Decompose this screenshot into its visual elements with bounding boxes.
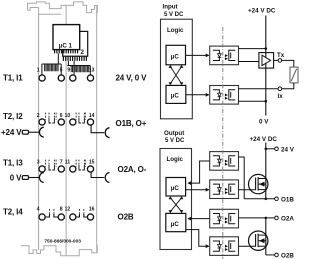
svg-text:+24 V DC: +24 V DC (250, 136, 278, 143)
terminal Tx (278, 59, 282, 63)
O1B output line (244, 198, 275, 200)
contact 9 (70, 75, 76, 81)
wire box2 pins to comb2 (67, 61, 69, 66)
wire load resistor to Ix (282, 83, 294, 89)
wire Ix to optocoupler 2 (239, 88, 279, 90)
microcontroller box uC 1 (53, 25, 80, 50)
svg-text:5 V DC: 5 V DC (164, 12, 184, 18)
svg-text:O2A, O-: O2A, O- (118, 165, 147, 174)
gate wire optoB to Q1 (239, 189, 256, 191)
wire Tx to load resistor (282, 60, 294, 67)
svg-text:O2B: O2B (118, 212, 134, 221)
svg-text:Tx: Tx (277, 52, 285, 59)
terminal 24V (275, 147, 279, 151)
dashed slot contact 15 (84, 160, 86, 167)
dashed slot contact 6 (55, 113, 57, 120)
svg-text:12: 12 (65, 207, 71, 213)
svg-text:24 V, 0 V: 24 V, 0 V (116, 73, 148, 82)
svg-text:13: 13 (89, 68, 95, 74)
wire uC2 to optocoupler 2 (186, 94, 209, 96)
contact 1 (39, 75, 45, 81)
feedback rail optoA down to O1B line (239, 157, 245, 199)
galvanic isolation dash-dot barrier (222, 27, 224, 259)
svg-text:+24 V DC: +24 V DC (248, 7, 276, 14)
wire optocoupler1 to +24V rail (239, 48, 266, 50)
svg-text:7: 7 (60, 159, 63, 165)
svg-text:8: 8 (60, 207, 63, 213)
crossed arrows between output uC boxes (170, 198, 181, 212)
Q2 drain-source rail (265, 218, 267, 255)
uC box U2 input (166, 85, 186, 103)
terminal O2A (275, 216, 279, 220)
contact 12 (70, 214, 76, 220)
svg-text:24 V: 24 V (281, 146, 295, 153)
svg-text:15: 15 (89, 159, 95, 165)
jumper dashes (78, 160, 80, 165)
contact 13 (87, 75, 93, 81)
svg-text:Input: Input (163, 3, 178, 10)
comb bus contacts 1-5 (42, 63, 61, 65)
load resistor external (290, 67, 298, 83)
wire optocoupler2 to 0V rail (239, 100, 266, 102)
amplifier U3 (259, 53, 274, 69)
svg-text:0 V: 0 V (10, 173, 22, 182)
svg-text:14: 14 (89, 113, 95, 119)
svg-text:6: 6 (60, 113, 63, 119)
uC1 pin row (55, 50, 78, 54)
transistor Q1 (O1B) (249, 174, 268, 193)
junction 0V/opto2 (265, 100, 268, 103)
junction O2A/Q2 drain (265, 217, 268, 220)
jumper dashes (83, 160, 85, 165)
uC box U1 input (166, 45, 186, 65)
svg-text:+24 V: +24 V (1, 128, 22, 137)
jumper dashes (48, 160, 50, 165)
jumper dashes (53, 160, 55, 165)
crossed arrows between input uC boxes (170, 67, 181, 84)
comb bus contacts 9-13 (67, 65, 90, 67)
terminal O1B (275, 197, 279, 201)
svg-text:2: 2 (37, 113, 40, 119)
contact 15 (87, 166, 93, 172)
svg-text:T2, I4: T2, I4 (3, 208, 23, 217)
jumper dashes (48, 113, 50, 118)
svg-text:T1, I1: T1, I1 (3, 74, 23, 83)
jumper dashes (78, 113, 80, 118)
svg-text:9: 9 (67, 68, 70, 74)
wire amplifier to Tx (274, 59, 279, 61)
svg-text:11: 11 (65, 159, 71, 165)
jumper bridge contacts 4-8 (45, 214, 58, 217)
svg-text:O1B, O+: O1B, O+ (116, 119, 147, 128)
jumper dashes (83, 113, 85, 118)
dashed slot contact 10 (75, 113, 77, 120)
svg-text:1: 1 (37, 68, 40, 74)
+24 V DC rail input (265, 16, 267, 116)
module vertical edge right (96, 6, 98, 253)
junction 24V tee (265, 148, 268, 151)
wire uC1 to optocoupler 1 (186, 54, 209, 56)
module vertical edge left (38, 8, 40, 250)
svg-text:750-666/000-003: 750-666/000-003 (44, 239, 81, 245)
terminal O2B (275, 253, 279, 257)
module shoulder ledge (39, 13, 62, 15)
output Logic box (160, 149, 192, 250)
contact 14 (87, 119, 93, 125)
svg-text:T1, I3: T1, I3 (3, 158, 23, 167)
optocoupler input 2 (210, 86, 239, 105)
svg-text:0 V: 0 V (259, 119, 269, 126)
svg-text:Ix: Ix (278, 93, 284, 100)
field wire clamp 0V (contact 3) (22, 176, 28, 180)
junction +24V/opto1 (265, 47, 268, 50)
wire optocoupler A feedback to uC4 (189, 161, 209, 183)
svg-text:T2, I2: T2, I2 (3, 112, 23, 121)
svg-text:µC 1: µC 1 (59, 43, 73, 50)
box2 pin row (63, 56, 86, 61)
svg-text:O2A: O2A (281, 215, 294, 222)
wire uC1 pins to comb1 (57, 53, 59, 64)
svg-text:5 V DC: 5 V DC (165, 138, 185, 144)
input Logic box (161, 19, 193, 119)
transistor Q2 (O2B) (249, 231, 268, 250)
contact 6 (58, 119, 64, 125)
optocoupler output B (drive O1B) (210, 180, 239, 199)
optocoupler output D (drive O2B) (210, 237, 239, 256)
svg-text:16: 16 (89, 207, 95, 213)
contact 10 (70, 119, 76, 125)
svg-text:µC: µC (171, 185, 180, 192)
svg-text:10: 10 (65, 113, 71, 119)
O2A line from optocoupler C (239, 217, 275, 219)
svg-text:3: 3 (37, 159, 40, 165)
module bottom profile (21, 245, 98, 256)
svg-text:Logic: Logic (167, 27, 184, 34)
svg-text:µC: µC (171, 93, 180, 100)
svg-text:µC: µC (171, 53, 180, 60)
gate wire optoD to Q2 (239, 245, 256, 247)
wire uC4 to optocoupler B (186, 189, 209, 191)
wire to terminal 24V (266, 148, 275, 150)
contact 4 (39, 214, 45, 220)
junction Q1 source/O1B (265, 198, 268, 201)
contact 11 (70, 166, 76, 172)
svg-text:4: 4 (37, 207, 40, 213)
svg-text:O2B: O2B (281, 252, 294, 259)
contact 8 (58, 214, 64, 220)
dashed slot contact 7 (55, 160, 57, 167)
optocoupler output A (feedback O1B) (210, 152, 239, 171)
terminal Ix (278, 87, 282, 91)
wire box2 pins to contact 9 (73, 61, 75, 75)
svg-text:Logic: Logic (167, 156, 184, 163)
svg-text:5: 5 (60, 68, 63, 74)
uC box U5 output (166, 213, 186, 231)
jumper bridge contacts 12-16 (76, 214, 87, 217)
contact 5 (58, 75, 64, 81)
svg-text:µC: µC (171, 221, 180, 228)
module vertical edge middle (65, 5, 67, 255)
module top profile (28, 2, 98, 13)
optocoupler input 1 (210, 46, 239, 65)
contact 3 (39, 166, 45, 172)
dashed slot contact 14 (84, 113, 86, 120)
svg-text:2: 2 (81, 49, 85, 56)
contact 7 (58, 166, 64, 172)
wire uC5 to optocoupler D (186, 230, 209, 247)
contact 2 (39, 119, 45, 125)
ASIC box 2 (63, 31, 88, 56)
wire optocoupler C feedback to uC5 (189, 218, 209, 220)
svg-text:Output: Output (164, 130, 184, 137)
uC box U4 output (166, 178, 186, 197)
dashed slot contact 11 (75, 160, 77, 167)
field wire clamp O1B (contact 14) (91, 125, 104, 133)
optocoupler output C (feedback O2A) (210, 209, 239, 228)
field wire clamp O2A (contact 15) (91, 172, 104, 178)
dashed slot contact 2 (44, 113, 46, 120)
contact 16 (87, 214, 93, 220)
field wire clamp +24V (contact 2) (22, 130, 28, 134)
svg-text:O1B: O1B (281, 196, 294, 203)
jumper dashes (53, 113, 55, 118)
O2B output line (266, 254, 275, 256)
dashed slot contact 3 (44, 160, 46, 167)
wire optocoupler1 to amplifier (239, 61, 259, 63)
